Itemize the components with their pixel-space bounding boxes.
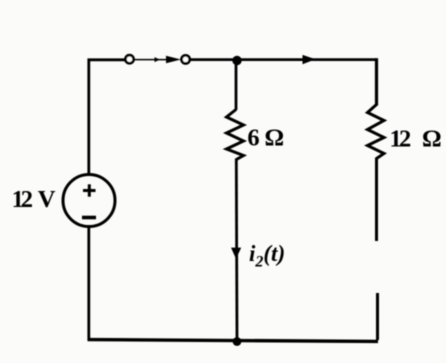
svg-text:6: 6 [247, 124, 259, 151]
svg-text:Ω: Ω [422, 126, 442, 153]
svg-text:2: 2 [399, 126, 411, 153]
svg-text:V: V [38, 186, 56, 213]
svg-text:2: 2 [21, 186, 33, 213]
svg-text:Ω: Ω [265, 124, 285, 151]
